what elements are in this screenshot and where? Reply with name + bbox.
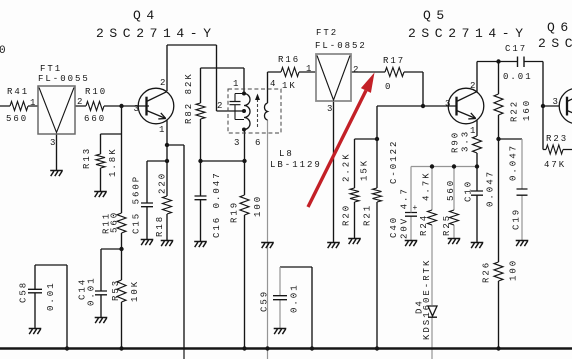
svg-text:R17: R17 xyxy=(383,56,405,66)
svg-text:0.01: 0.01 xyxy=(87,276,97,306)
svg-text:1K: 1K xyxy=(282,81,297,91)
svg-text:2: 2 xyxy=(217,101,222,111)
svg-text:3: 3 xyxy=(445,99,450,109)
svg-text:1: 1 xyxy=(306,64,311,74)
svg-text:6: 6 xyxy=(255,138,260,148)
svg-text:KDS160E-RTK: KDS160E-RTK xyxy=(422,259,432,340)
svg-text:160: 160 xyxy=(522,99,532,121)
svg-text:C59: C59 xyxy=(260,290,270,312)
svg-text:C17: C17 xyxy=(505,44,527,54)
svg-text:2: 2 xyxy=(353,65,358,75)
svg-text:R82 82K: R82 82K xyxy=(184,72,194,124)
svg-text:R13: R13 xyxy=(82,147,92,169)
svg-text:Q6: Q6 xyxy=(547,20,572,35)
svg-text:3: 3 xyxy=(234,138,239,148)
svg-text:10K: 10K xyxy=(130,280,140,302)
svg-text:660: 660 xyxy=(84,114,106,124)
svg-text:3.3: 3.3 xyxy=(461,130,471,152)
svg-text:15K: 15K xyxy=(360,159,370,181)
svg-text:+: + xyxy=(413,204,418,213)
svg-text:560: 560 xyxy=(6,114,28,124)
svg-text:1: 1 xyxy=(233,79,238,89)
svg-text:20V 4.7: 20V 4.7 xyxy=(400,187,410,239)
svg-text:3: 3 xyxy=(50,138,55,148)
svg-text:R25: R25 xyxy=(442,214,452,236)
svg-text:1: 1 xyxy=(30,98,35,108)
svg-text:560: 560 xyxy=(110,211,120,233)
svg-text:2SC2714-Y: 2SC2714-Y xyxy=(96,26,217,41)
svg-text:R41: R41 xyxy=(7,87,29,97)
svg-text:1: 1 xyxy=(159,125,164,135)
svg-text:0: 0 xyxy=(385,82,390,92)
svg-text:3: 3 xyxy=(134,104,139,114)
svg-text:FL-0852: FL-0852 xyxy=(315,41,367,51)
svg-text:R22: R22 xyxy=(510,100,520,122)
svg-text:R19: R19 xyxy=(230,201,240,223)
svg-text:FT2: FT2 xyxy=(316,28,338,38)
svg-text:FT1: FT1 xyxy=(40,64,62,74)
svg-text:100: 100 xyxy=(253,195,263,217)
svg-text:2: 2 xyxy=(470,81,475,91)
svg-text:0: 0 xyxy=(0,45,6,57)
svg-text:4.7K: 4.7K xyxy=(422,171,432,201)
svg-text:R53: R53 xyxy=(111,279,121,301)
svg-text:C16 0.047: C16 0.047 xyxy=(212,171,222,238)
svg-text:R21: R21 xyxy=(363,204,373,226)
svg-text:R23: R23 xyxy=(546,134,568,144)
svg-text:R90: R90 xyxy=(451,131,461,153)
svg-text:R16: R16 xyxy=(278,55,300,65)
svg-text:C40: C40 xyxy=(389,216,399,238)
svg-text:2.2K: 2.2K xyxy=(342,152,352,182)
svg-text:C19: C19 xyxy=(512,208,522,230)
svg-text:C15 560P: C15 560P xyxy=(132,175,142,234)
svg-text:LB-1129: LB-1129 xyxy=(270,160,322,170)
svg-text:3: 3 xyxy=(327,104,332,114)
svg-text:R20: R20 xyxy=(342,204,352,226)
svg-text:C-0122: C-0122 xyxy=(389,140,399,184)
svg-text:100: 100 xyxy=(509,259,519,281)
svg-text:47K: 47K xyxy=(544,160,566,170)
svg-text:2: 2 xyxy=(160,78,165,88)
svg-text:0.01: 0.01 xyxy=(46,281,56,311)
svg-text:0.01: 0.01 xyxy=(503,72,533,82)
svg-text:R18: R18 xyxy=(155,215,165,237)
svg-text:560: 560 xyxy=(446,179,456,201)
svg-text:220: 220 xyxy=(158,172,168,194)
svg-text:R10: R10 xyxy=(85,87,107,97)
svg-text:0.01: 0.01 xyxy=(290,283,300,313)
svg-text:1: 1 xyxy=(470,126,475,136)
svg-text:2SC2714-Y: 2SC2714-Y xyxy=(538,36,572,51)
svg-text:C10: C10 xyxy=(464,180,474,202)
svg-text:R26: R26 xyxy=(482,261,492,283)
svg-text:Q5: Q5 xyxy=(423,8,450,23)
svg-text:FL-0055: FL-0055 xyxy=(38,74,90,84)
svg-text:0.047: 0.047 xyxy=(509,144,519,181)
svg-text:C58: C58 xyxy=(19,281,29,303)
svg-text:R24: R24 xyxy=(419,214,429,236)
svg-text:Q4: Q4 xyxy=(133,8,160,23)
svg-text:2SC2714-Y: 2SC2714-Y xyxy=(408,26,529,41)
svg-text:0.047: 0.047 xyxy=(486,170,496,207)
svg-text:4: 4 xyxy=(270,79,275,89)
svg-text:1.8K: 1.8K xyxy=(108,147,118,177)
svg-text:L8: L8 xyxy=(279,149,294,159)
svg-text:2: 2 xyxy=(77,97,82,107)
svg-text:3: 3 xyxy=(553,97,558,107)
